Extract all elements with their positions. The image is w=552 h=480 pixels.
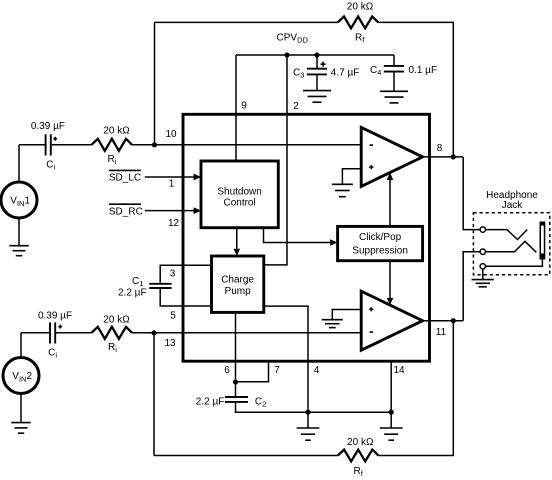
wire SD_LC input	[145, 176, 194, 178]
source Vin2 wire to circle	[20, 333, 22, 358]
wire charge pump to pin 6	[235, 312, 237, 382]
wire Ci to Ri channel1	[52, 144, 92, 146]
svg-text:10: 10	[165, 129, 177, 140]
wire shutdown to clickpop	[264, 228, 331, 243]
svg-text:9: 9	[241, 101, 247, 112]
node junction dot pin4 ground rail	[305, 410, 310, 415]
charge pump box	[212, 256, 264, 312]
wire SD_RC input	[145, 210, 194, 212]
wire C4 top lead from rail	[393, 55, 395, 66]
capacitor C3 plates	[307, 68, 327, 70]
plus sign opamp2	[369, 307, 373, 311]
wire pin11 to jack ring contact	[463, 252, 480, 321]
svg-text:5: 5	[170, 310, 176, 321]
opamp U2 bottom triangle	[361, 291, 422, 350]
svg-text:8: 8	[437, 143, 443, 154]
wire jack sleeve to ground	[482, 269, 484, 280]
wire opamp2 plus to ground	[332, 310, 361, 320]
svg-text:4: 4	[314, 365, 320, 376]
wire C2 top lead	[235, 382, 237, 397]
arrow shutdown to charge pump	[236, 228, 238, 250]
wire opamp1 plus to ground	[342, 169, 361, 185]
shutdown control box U-block	[201, 161, 278, 228]
plus sign C3	[321, 62, 326, 67]
svg-text:4.7 µF: 4.7 µF	[331, 67, 360, 78]
arrow clickpop to opamp2	[389, 261, 391, 299]
wire pin8 to jack tip contact	[463, 157, 480, 230]
node junction dot C3 top	[314, 52, 319, 57]
ground Vin1	[9, 246, 28, 256]
svg-text:13: 13	[164, 338, 176, 349]
wire C1 bottom to pin 5	[160, 288, 211, 306]
capacitor Ci channel2 plate B	[54, 322, 56, 343]
IC main box	[183, 114, 430, 361]
wire jack sleeve to plug	[486, 260, 543, 267]
capacitor C2 plates	[225, 396, 248, 398]
svg-text:SD_LC: SD_LC	[109, 173, 141, 184]
plus sign Ci channel1	[53, 137, 57, 141]
svg-text:1: 1	[169, 179, 175, 190]
wire Vin2 lead	[21, 332, 49, 334]
arrow clickpop to opamp1	[389, 180, 391, 227]
svg-text:20 kΩ: 20 kΩ	[103, 125, 130, 136]
node junction dot pin8	[451, 154, 456, 159]
svg-text:20 kΩ: 20 kΩ	[103, 314, 130, 325]
plus sign opamp1	[369, 165, 373, 169]
ground C3	[303, 91, 331, 103]
svg-text:11: 11	[436, 327, 447, 338]
ground C4	[380, 91, 408, 103]
wire Ri2 to pin13 and opamp2 minus	[132, 332, 361, 334]
wire C3 bottom lead	[316, 74, 318, 90]
svg-text:0.39 µF: 0.39 µF	[31, 121, 65, 132]
wire Ri to pin10 and opamp1 minus input	[132, 144, 361, 146]
wire pin 7 jumper	[236, 360, 269, 382]
svg-text:0.1 µF: 0.1 µF	[409, 65, 438, 76]
capacitor Ci channel1 plate A	[45, 134, 47, 155]
svg-text:Control: Control	[223, 198, 255, 209]
ground pin4	[297, 428, 320, 440]
wire pin 3 to charge pump	[160, 265, 211, 283]
jack ring contact circle	[480, 249, 485, 254]
wire top feedback loop left vertical	[154, 22, 156, 144]
svg-text:Shutdown: Shutdown	[217, 187, 261, 198]
svg-text:Charge: Charge	[221, 275, 254, 286]
wire bottom feedback loop right segment	[378, 321, 453, 456]
opamp U1 top triangle	[361, 127, 422, 186]
svg-text:20 kΩ: 20 kΩ	[347, 2, 374, 13]
capacitor Ci channel1 plate B	[50, 134, 52, 155]
wire C3 top lead	[316, 55, 318, 68]
svg-text:Pump: Pump	[225, 286, 252, 297]
svg-text:2.2 µF: 2.2 µF	[118, 288, 147, 299]
svg-text:Suppression: Suppression	[352, 245, 408, 256]
minus sign opamp2	[370, 331, 374, 333]
capacitor C1 plates	[149, 283, 171, 285]
wire CPVDD rail horizontal	[236, 54, 394, 56]
resistor Rf bottom 20k zigzag	[338, 450, 379, 462]
node junction dot pin13 input	[151, 330, 156, 335]
jack sleeve contact circle	[480, 264, 485, 269]
capacitor Ci channel2 plate A	[49, 322, 51, 343]
svg-text:3: 3	[170, 268, 176, 279]
svg-text:20 kΩ: 20 kΩ	[347, 437, 374, 448]
arrowhead SD_LC	[194, 174, 201, 181]
svg-text:7: 7	[274, 365, 280, 376]
node junction dot pin10 input	[152, 142, 157, 147]
ground opamp2	[322, 320, 343, 328]
node junction dot pin14 ground rail	[389, 410, 394, 415]
svg-text:SD_RC: SD_RC	[109, 206, 143, 217]
arrowhead into clickpop	[330, 239, 337, 246]
wire Vin2 to ground	[20, 393, 22, 422]
jack tip switch contact	[486, 230, 528, 240]
source Vin1 circle	[1, 182, 37, 218]
jack ring switch contact	[486, 241, 537, 252]
svg-text:Jack: Jack	[502, 200, 524, 211]
resistor Ri channel1 zigzag	[92, 139, 133, 151]
svg-text:2.2 µF: 2.2 µF	[196, 397, 225, 408]
jack plug body	[540, 222, 546, 260]
wire pin 14 vertical	[390, 360, 392, 428]
wire pin 2 vertical to charge pump	[264, 55, 287, 265]
wire opamp2 output pin 11	[423, 320, 464, 322]
wire Vin1 to opamp1 minus (pin 10)	[19, 144, 45, 146]
capacitor C4 plates	[384, 65, 404, 67]
wire Vin1 to ground	[18, 218, 20, 246]
wire C4 bottom lead	[393, 72, 395, 92]
wire top feedback loop top-right segment	[378, 22, 453, 157]
arrowhead SD_RC	[194, 207, 201, 214]
svg-text:0.39 µF: 0.39 µF	[38, 311, 72, 322]
wire Ci2 to Ri2	[56, 332, 92, 334]
ground opamp1	[332, 184, 353, 196]
minus sign opamp1	[370, 144, 374, 146]
click/pop suppression box	[338, 226, 423, 260]
ground pin14	[380, 428, 403, 440]
wire opamp1 output pin 8	[423, 156, 464, 158]
source Vin1 wire to circle	[18, 145, 20, 182]
wire top feedback loop top-left segment	[155, 21, 338, 23]
svg-text:14: 14	[393, 365, 405, 376]
svg-text:12: 12	[168, 218, 180, 229]
plus sign Ci channel2	[58, 325, 62, 329]
wire C2 bottom to ground rail	[236, 402, 392, 412]
node junction dot CPVDD pin2	[284, 52, 289, 57]
ground Vin2	[11, 423, 30, 434]
wire bottom feedback loop bottom-left segment	[154, 455, 338, 457]
node junction dot pin11	[451, 318, 456, 323]
ground jack	[472, 280, 494, 287]
headphone jack dashed box	[473, 213, 549, 275]
wire charge pump to pin 4	[262, 306, 308, 427]
svg-text:2: 2	[293, 101, 299, 112]
resistor Rf top 20k zigzag	[338, 17, 379, 29]
wire bottom feedback loop left vertical	[153, 333, 155, 456]
svg-text:Click/Pop: Click/Pop	[359, 232, 402, 243]
svg-text:6: 6	[224, 365, 230, 376]
node junction dot pin6/7	[233, 379, 238, 384]
source Vin2 circle	[3, 358, 39, 394]
resistor Ri channel2 zigzag	[92, 327, 133, 339]
jack tip contact circle	[480, 227, 485, 232]
wire pin 9 vertical to CPVDD rail	[235, 55, 237, 161]
